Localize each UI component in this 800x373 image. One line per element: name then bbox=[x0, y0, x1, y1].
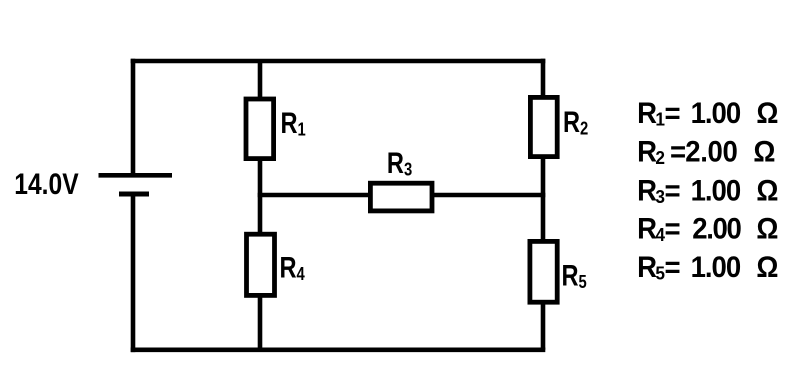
wire top horizontal bbox=[131, 59, 546, 64]
wire right branch between R2 and R5 bbox=[541, 157, 546, 240]
wire middle horizontal left segment bbox=[258, 193, 370, 198]
label R5 bbox=[562, 259, 587, 292]
battery B1 positive plate bbox=[99, 173, 173, 178]
wire middle branch below R4 bbox=[258, 296, 263, 350]
legend R1 value bbox=[637, 97, 778, 130]
legend R4 value bbox=[637, 213, 778, 246]
wire middle branch between R1 and R4 bbox=[258, 160, 263, 233]
resistor R1 bbox=[246, 99, 274, 159]
label 14.0V bbox=[14, 167, 78, 201]
resistor R3 bbox=[370, 183, 432, 211]
wire middle branch top lead bbox=[258, 61, 263, 98]
resistor R2 bbox=[530, 97, 557, 156]
label R3 bbox=[387, 146, 412, 179]
legend R5 value bbox=[637, 251, 778, 284]
label R1 bbox=[281, 106, 306, 139]
legend R3 value bbox=[637, 175, 778, 208]
legend R2 value bbox=[637, 135, 775, 168]
svg-text:14.0V: 14.0V bbox=[14, 167, 78, 201]
label R4 bbox=[280, 251, 306, 284]
wire right branch below R5 bbox=[541, 303, 546, 350]
wire left vertical lower (battery - lead) bbox=[131, 194, 136, 352]
resistor R5 bbox=[530, 241, 557, 302]
label R2 bbox=[563, 105, 588, 138]
wire right vertical top lead bbox=[541, 59, 546, 97]
wire bottom horizontal bbox=[131, 347, 546, 352]
resistor R4 bbox=[247, 234, 275, 295]
wire middle horizontal right segment bbox=[432, 193, 545, 198]
battery B1 negative plate bbox=[119, 192, 149, 197]
wire left vertical upper (battery + lead) bbox=[131, 59, 136, 175]
